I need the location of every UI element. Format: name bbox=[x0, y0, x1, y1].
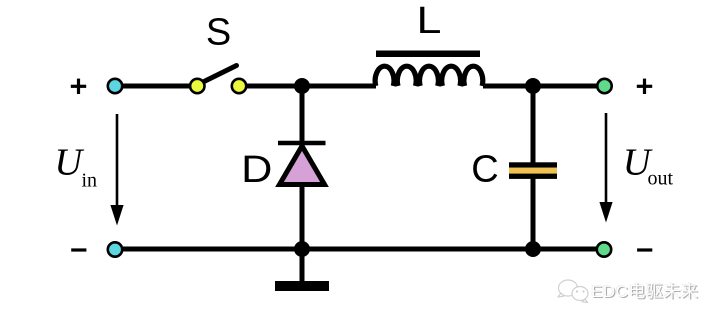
switch S contact circle left bbox=[190, 79, 204, 93]
svg-text:in: in bbox=[82, 170, 98, 192]
ground symbol bbox=[275, 281, 329, 291]
diode D triangle bbox=[280, 146, 325, 185]
capacitor C dielectric (yellow) bbox=[509, 168, 557, 174]
junction node C (diode / bottom rail) bbox=[294, 241, 310, 257]
minus sign output bbox=[637, 248, 652, 251]
wire bottom rail bbox=[117, 247, 600, 252]
svg-text:L: L bbox=[417, 0, 442, 41]
watermark text EDC bbox=[591, 283, 698, 300]
svg-text:S: S bbox=[206, 12, 231, 54]
arrow U_in (downward) bbox=[110, 114, 123, 226]
terminal output + (green) bbox=[597, 79, 611, 93]
diode D cathode bar bbox=[278, 141, 326, 146]
switch S blade bbox=[199, 66, 237, 85]
svg-text:out: out bbox=[648, 168, 674, 190]
minus sign input bbox=[71, 248, 86, 251]
plus sign output bbox=[637, 79, 652, 94]
inductor L coil bbox=[375, 66, 483, 86]
terminal input + (cyan) bbox=[108, 79, 122, 93]
ground stub wire bbox=[300, 249, 305, 283]
wire top rail right segment (inductor to output +) bbox=[483, 84, 600, 89]
junction node A (diode / top rail) bbox=[294, 78, 310, 94]
terminal output - (green) bbox=[597, 242, 611, 256]
switch S contact circle right bbox=[232, 79, 246, 93]
capacitor C bottom wire bbox=[531, 178, 536, 249]
terminal input - (cyan) bbox=[108, 242, 122, 256]
inductor L core bar bbox=[376, 51, 480, 58]
diode D anode wire (triangle to bottom rail) bbox=[300, 184, 305, 249]
plus sign input bbox=[71, 79, 86, 94]
capacitor C top wire bbox=[531, 86, 536, 165]
svg-text:C: C bbox=[471, 149, 498, 191]
junction node B (capacitor / top rail) bbox=[525, 78, 541, 94]
svg-text:U: U bbox=[54, 141, 84, 183]
watermark icon (chat bubbles) bbox=[558, 280, 588, 303]
capacitor C bottom plate bbox=[509, 174, 557, 179]
svg-text:D: D bbox=[241, 147, 272, 190]
diode D branch wire (node A down to cathode) bbox=[300, 86, 305, 146]
junction node D (capacitor / bottom rail) bbox=[525, 241, 541, 257]
capacitor C top plate bbox=[509, 162, 557, 167]
wire top rail middle segment (switch to node A) bbox=[243, 84, 376, 89]
arrow U_out (downward) bbox=[599, 113, 612, 223]
wire top rail left segment (input + to switch) bbox=[117, 84, 192, 89]
